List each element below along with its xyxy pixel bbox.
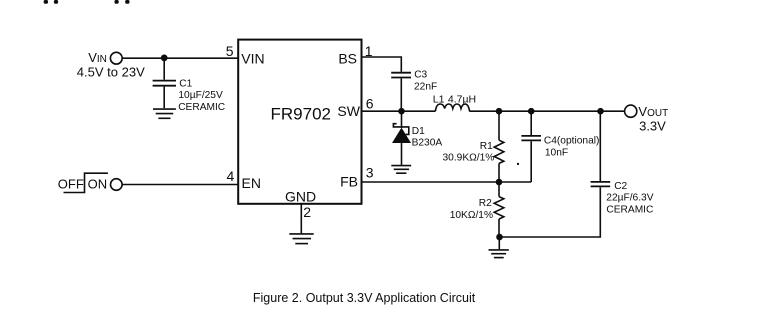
- label C3 value: [414, 70, 437, 93]
- wire inductor to VOUT rail: [469, 110, 624, 112]
- wire BS pin to C3: [362, 57, 402, 72]
- svg-text:SW: SW: [337, 103, 360, 119]
- svg-text:CERAMIC: CERAMIC: [178, 102, 225, 113]
- svg-text:OFF: OFF: [58, 177, 84, 192]
- svg-text:C3: C3: [414, 70, 427, 81]
- pin 4 EN: [227, 168, 261, 191]
- wire VIN terminal to pin 5: [122, 57, 238, 59]
- svg-text:10nF: 10nF: [545, 147, 568, 158]
- svg-text:4: 4: [227, 168, 235, 184]
- svg-text:3: 3: [366, 164, 374, 180]
- pin 5 VIN: [226, 43, 265, 66]
- capacitor C2: [591, 111, 611, 186]
- label C1 value: [178, 78, 225, 113]
- ground for GND pin: [289, 234, 313, 244]
- svg-text:CERAMIC: CERAMIC: [606, 205, 653, 216]
- svg-text:10µF/25V: 10µF/25V: [178, 90, 223, 101]
- label C2 value: [606, 181, 653, 216]
- node SW junction: [398, 108, 405, 115]
- svg-text:3.3V: 3.3V: [639, 119, 666, 134]
- ground for C1: [153, 109, 176, 118]
- resistor R2: [494, 182, 504, 237]
- resistor R1: [494, 111, 504, 182]
- wire FB pin to divider node: [362, 181, 532, 183]
- svg-text:D1: D1: [412, 126, 425, 137]
- IC U1 FR9702 body: [238, 40, 361, 204]
- node bottom junction: [496, 234, 503, 241]
- svg-text:B230A: B230A: [412, 137, 443, 148]
- svg-text:GND: GND: [285, 188, 316, 204]
- node C2 top junction: [597, 108, 604, 115]
- switch OFF/ON symbol: [64, 173, 108, 192]
- schottky diode D1: [392, 111, 411, 165]
- svg-text:FR9702: FR9702: [271, 105, 331, 124]
- wire enable terminal to pin 4: [122, 184, 238, 186]
- svg-text:22nF: 22nF: [414, 81, 437, 92]
- node junction C1 tap: [161, 55, 168, 62]
- input terminal VIN: [110, 52, 122, 64]
- ground for divider: [489, 237, 509, 258]
- pin 2 GND: [285, 188, 316, 220]
- svg-text:C4(optional): C4(optional): [544, 135, 600, 146]
- svg-text:30.9KΩ/1%: 30.9KΩ/1%: [443, 153, 495, 164]
- wire SW pin to inductor: [362, 110, 436, 112]
- svg-text:22µF/6.3V: 22µF/6.3V: [606, 193, 653, 204]
- svg-text:FB: FB: [340, 174, 358, 190]
- svg-text:BS: BS: [338, 51, 357, 67]
- svg-text:5: 5: [226, 43, 234, 59]
- svg-text:Figure 2. Output 3.3V Applicat: Figure 2. Output 3.3V Application Circui…: [253, 291, 476, 305]
- pin 1 BS: [338, 43, 372, 66]
- svg-text:R2: R2: [479, 198, 492, 209]
- wire bottom node to C2: [500, 187, 601, 237]
- node R1 top junction: [496, 108, 503, 115]
- svg-text:EN: EN: [242, 175, 261, 191]
- node C4 top junction: [528, 108, 535, 115]
- inductor L1: [435, 104, 469, 111]
- svg-text:R1: R1: [480, 141, 493, 152]
- label D1 value: [412, 126, 443, 148]
- capacitor C1: [153, 58, 176, 108]
- svg-text:4.5V to 23V: 4.5V to 23V: [77, 65, 145, 80]
- svg-text:VIN: VIN: [241, 51, 264, 67]
- svg-text:10KΩ/1%: 10KΩ/1%: [450, 210, 493, 221]
- svg-text:ON: ON: [88, 177, 108, 192]
- svg-text:L14.7µH: L14.7µH: [433, 94, 476, 106]
- ground for D1: [391, 166, 411, 174]
- svg-text:C2: C2: [614, 181, 627, 192]
- pin 3 FB: [340, 164, 374, 189]
- node FB junction: [496, 179, 503, 186]
- clipped heading descenders (top of page): [44, 0, 130, 4]
- label C4 value: [544, 135, 600, 158]
- svg-text:6: 6: [366, 95, 374, 111]
- GND pin stub wire: [300, 204, 302, 233]
- svg-text:2: 2: [303, 204, 311, 220]
- stray dot artifact: [517, 163, 519, 165]
- capacitor C4: [521, 111, 541, 182]
- capacitor C3: [391, 73, 411, 111]
- svg-text:C1: C1: [179, 78, 192, 89]
- enable terminal: [111, 179, 123, 191]
- output terminal VOUT: [625, 105, 637, 117]
- pin 6 SW: [337, 95, 373, 119]
